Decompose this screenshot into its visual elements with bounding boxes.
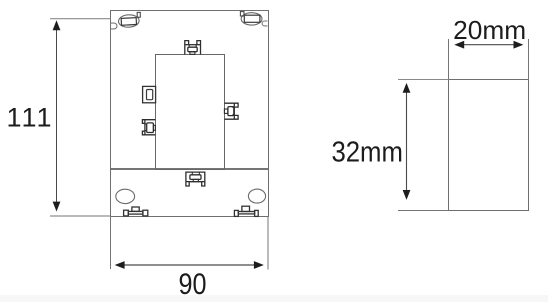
bottom-left hole ellipse (116, 189, 135, 203)
dim line 20mm (460, 44, 517, 46)
ext line top (50, 18, 110, 20)
svg-text:111: 111 (6, 102, 51, 132)
bottom clip under split line (186, 172, 205, 186)
arrow up 32mm (403, 83, 411, 93)
right edge notch (262, 21, 267, 26)
top-left small tab (137, 12, 140, 17)
left edge notch (111, 23, 117, 29)
bottom-right hole ellipse (248, 189, 265, 203)
arrow down (53, 202, 61, 212)
top-right slot rect (244, 15, 260, 22)
left window inner rect (147, 90, 153, 100)
ext left top (398, 79, 449, 81)
top-left slot rect (121, 18, 136, 26)
dim line 111 (56, 27, 58, 205)
arrow up (53, 20, 61, 30)
arrow right 20mm (514, 41, 524, 49)
dim line 90 (121, 264, 257, 266)
arrow right (254, 261, 264, 269)
ext left bottom (398, 210, 449, 212)
svg-text:20mm: 20mm (453, 15, 526, 45)
ext up left (448, 39, 450, 80)
top-right small tab (240, 12, 244, 16)
inner terminal block rect (156, 55, 225, 170)
ext line bottom (50, 215, 111, 217)
top-right mounting slot ellipse (241, 13, 262, 25)
arrow left 20mm (454, 41, 464, 49)
left clip on inner rect (142, 120, 155, 135)
right rail foot (234, 206, 258, 216)
left window square (143, 86, 156, 102)
dim line 32mm (406, 89, 408, 194)
svg-text:32mm: 32mm (331, 136, 403, 168)
left rail foot (124, 207, 148, 216)
top-left mounting slot ellipse (118, 14, 139, 27)
svg-text:90: 90 (179, 268, 207, 301)
right clip on inner rect (224, 103, 238, 119)
arrow left (115, 261, 125, 269)
arrow down 32mm (403, 190, 411, 200)
side view rect (449, 80, 529, 211)
body split line (111, 168, 269, 170)
outer enclosure box (111, 11, 269, 217)
top clip on inner rect (185, 41, 201, 55)
ext line left (110, 216, 112, 269)
ext up right (528, 39, 530, 80)
ext line right (267, 216, 269, 270)
